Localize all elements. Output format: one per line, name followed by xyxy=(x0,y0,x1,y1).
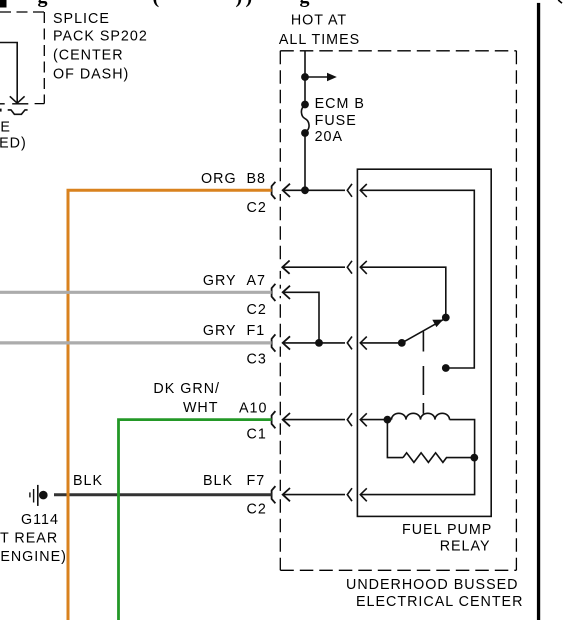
node B+ tap xyxy=(301,73,309,81)
ground G114 xyxy=(29,492,30,497)
svg-text:RELAY: RELAY xyxy=(440,538,491,554)
node switch pivot xyxy=(398,339,406,347)
wire relay NC feed xyxy=(360,190,474,368)
wire GRY A7 xyxy=(0,291,272,294)
node coil left xyxy=(384,416,392,424)
connector B8 pin xyxy=(283,184,290,197)
connector A7 pin xyxy=(283,286,290,299)
mechanical link dashed xyxy=(422,332,424,414)
title sliver paren3 xyxy=(558,0,562,3)
connector F1 pin xyxy=(283,336,290,349)
svg-text:ME: ME xyxy=(0,120,11,136)
connector socket below splice arrow xyxy=(8,110,28,114)
svg-text:C2: C2 xyxy=(247,200,267,216)
node resistor right xyxy=(470,454,478,462)
terminal F1 relay out xyxy=(347,337,352,350)
resistor branch wire xyxy=(387,420,403,458)
svg-text:UNDERHOOD BUSSED: UNDERHOOD BUSSED xyxy=(346,577,519,593)
svg-text:OF ENGINE): OF ENGINE) xyxy=(0,549,67,565)
wire splice feed xyxy=(0,43,17,104)
svg-text:ALL TIMES: ALL TIMES xyxy=(279,32,360,48)
svg-text:ELECTRICAL CENTER: ELECTRICAL CENTER xyxy=(356,594,523,610)
terminal B8 relay out xyxy=(347,184,352,197)
fuel pump relay box xyxy=(357,169,491,516)
arrowhead splice feed xyxy=(10,96,25,103)
svg-text:C2: C2 xyxy=(247,502,267,518)
svg-text:g: g xyxy=(300,0,310,8)
svg-text:A7: A7 xyxy=(247,273,267,289)
svg-text:A10: A10 xyxy=(239,400,267,416)
svg-text:ECM B: ECM B xyxy=(315,96,365,112)
splice pack SP202 dashed box xyxy=(0,12,44,104)
connector A10 socket xyxy=(272,411,276,428)
terminal F7 relay out xyxy=(347,488,352,501)
wire row A10 xyxy=(283,419,345,421)
relay coil xyxy=(392,413,450,419)
wire row2 to NO contact xyxy=(360,267,446,317)
svg-text:GRY: GRY xyxy=(203,273,237,289)
wire row F1 xyxy=(283,342,345,344)
connector F7 socket xyxy=(272,486,276,503)
terminal row2 pin xyxy=(282,261,289,274)
svg-text:F7: F7 xyxy=(247,473,266,489)
wire row B8 xyxy=(283,189,345,191)
svg-text:(CENTER: (CENTER xyxy=(53,48,124,64)
UBEC dashed box xyxy=(280,51,516,571)
connector F7 pin xyxy=(283,488,290,501)
svg-text:BLK: BLK xyxy=(203,473,233,489)
svg-text:PACK SP202: PACK SP202 xyxy=(53,29,148,45)
svg-text:DK GRN/: DK GRN/ xyxy=(153,381,220,397)
terminal A10 relay in xyxy=(360,413,367,426)
svg-text:g: g xyxy=(38,0,48,8)
wire A7 jumper xyxy=(283,292,319,343)
wire row F7 xyxy=(283,494,345,496)
terminal row2 relay out xyxy=(347,261,352,274)
terminal F7 relay in xyxy=(360,488,367,501)
svg-text:C1: C1 xyxy=(247,427,267,443)
wire GRY F1 xyxy=(0,341,272,344)
svg-text:BLK: BLK xyxy=(73,473,103,489)
wire ORG xyxy=(68,190,272,620)
svg-text:OF DASH): OF DASH) xyxy=(53,67,129,83)
wire F7 to resistor node xyxy=(360,458,474,495)
resistor xyxy=(403,453,471,463)
page rule bar xyxy=(537,3,540,620)
edge fragment xyxy=(0,109,2,112)
terminal A10 relay out xyxy=(347,413,352,426)
svg-text:20A: 20A xyxy=(315,129,343,145)
svg-text:GRY: GRY xyxy=(203,323,237,339)
svg-text:G114: G114 xyxy=(21,512,59,528)
svg-text:WHT: WHT xyxy=(183,400,219,416)
wire BLK ground xyxy=(54,493,272,496)
wire coil to right xyxy=(450,420,475,458)
svg-text:C2: C2 xyxy=(247,302,267,318)
svg-text:SPLICE: SPLICE xyxy=(53,11,110,27)
wire F1 to pivot xyxy=(360,342,402,344)
node B8 junction xyxy=(301,186,309,194)
svg-text:(RED): (RED) xyxy=(0,135,27,151)
svg-text:B8: B8 xyxy=(247,171,267,187)
terminal B8 relay in xyxy=(360,184,367,197)
border gaps xyxy=(279,187,282,194)
wire DK GRN/WHT xyxy=(119,420,272,620)
connector A10 pin xyxy=(283,413,290,426)
node NC contact xyxy=(442,364,450,372)
switch arm xyxy=(402,318,446,343)
connector F1 socket xyxy=(272,334,276,351)
connector B8 socket xyxy=(272,182,276,199)
node NO contact xyxy=(442,314,450,322)
terminal F1 relay in xyxy=(360,337,367,350)
svg-text:F1: F1 xyxy=(247,323,266,339)
node A7-F1 join xyxy=(315,339,323,347)
svg-text:): ) xyxy=(236,0,243,8)
title sliver fragment rect xyxy=(0,0,7,8)
svg-text:FUEL PUMP: FUEL PUMP xyxy=(402,522,492,538)
svg-text:C3: C3 xyxy=(247,351,267,367)
svg-text:ORG: ORG xyxy=(201,171,237,187)
terminal row2 relay in xyxy=(360,261,367,274)
svg-text:(LEFT REAR: (LEFT REAR xyxy=(0,531,58,547)
svg-text:FUSE: FUSE xyxy=(315,113,357,129)
connector A7 socket xyxy=(272,284,276,301)
wire B+ feed vertical xyxy=(304,51,306,191)
svg-text:HOT AT: HOT AT xyxy=(291,12,347,28)
fuse ECM B 20A xyxy=(301,101,309,109)
wire A10 to coil xyxy=(360,419,391,421)
wire row2 xyxy=(282,266,345,268)
svg-text:): ) xyxy=(246,0,253,8)
arrow B+ tap xyxy=(305,76,328,78)
svg-text:(: ( xyxy=(153,0,160,8)
